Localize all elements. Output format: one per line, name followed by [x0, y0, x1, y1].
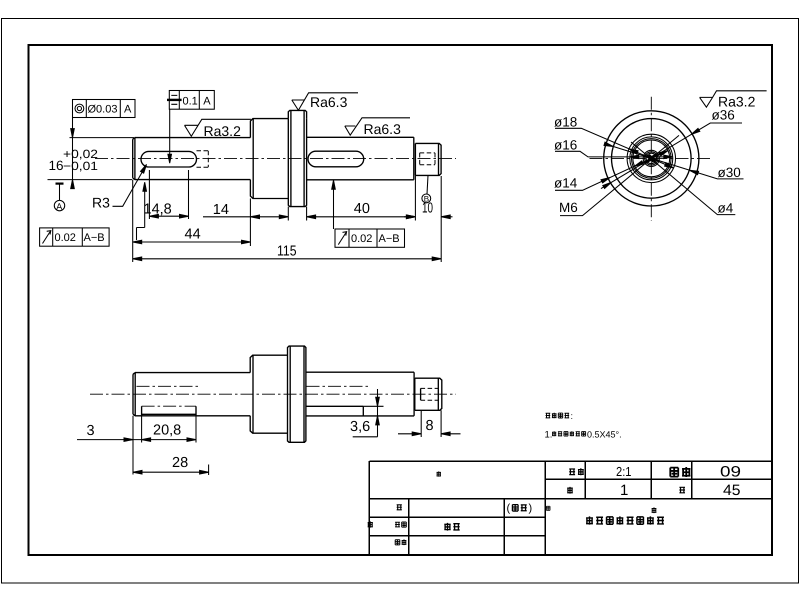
bottom view keyway of section 3: [307, 406, 364, 416]
svg-text:20,8: 20,8: [153, 423, 181, 439]
feature control frame circular runout 0.02 A-B (right) with leader: [332, 180, 405, 247]
shaft section 3 outline (d16): [307, 137, 414, 180]
circle d18: [627, 134, 675, 182]
svg-text:14,8: 14,8: [144, 201, 172, 217]
flange chamfer lines: [291, 110, 304, 206]
label date (riqi): [507, 503, 533, 515]
dimension 8 (bottom view thread length): [398, 410, 461, 437]
leader d30: [604, 142, 744, 180]
label checked (shenhe): [395, 540, 400, 545]
bottom view keyway of section 1: [141, 406, 196, 416]
dimension 40: [307, 175, 416, 220]
title block vertical after scale label: [584, 461, 586, 499]
svg-text:115: 115: [277, 243, 297, 259]
extension lines for d16: [48, 138, 135, 180]
leader d18: [554, 115, 674, 169]
title block row line 4: [369, 535, 545, 537]
datum A symbol: [54, 184, 64, 212]
label design second char (ji): [368, 521, 373, 527]
svg-text:0.5X45°.: 0.5X45°.: [587, 429, 622, 439]
svg-text:A: A: [124, 104, 132, 116]
title block horizontal line under scale row: [545, 478, 772, 480]
end section outline (d12): [415, 143, 441, 175]
svg-text:Ra3.2: Ra3.2: [718, 94, 756, 110]
bottom view section 3 outline: [306, 372, 414, 416]
title block vertical in signature area 1: [408, 499, 410, 556]
inner border frame: [29, 45, 773, 555]
label drawn by (huitu): [395, 522, 400, 527]
school name North China Institute of Aerospace Engineering: [586, 516, 664, 524]
svg-text:A: A: [56, 201, 62, 211]
svg-text:14: 14: [213, 202, 229, 218]
clipped glyph at unit cell: [546, 506, 550, 510]
feature control frame circular runout 0.02 A-B (left): [40, 228, 110, 246]
label design (she): [397, 505, 402, 510]
chamfer line left of section 2: [252, 119, 254, 199]
dimension 14,8: [144, 170, 189, 219]
svg-text:ø36: ø36: [712, 108, 735, 123]
svg-text:28: 28: [172, 455, 188, 471]
svg-text:16: 16: [49, 158, 64, 173]
stray glyph (jie): [652, 507, 657, 513]
bottom view section 1 outline: [133, 373, 250, 416]
svg-text:ø30: ø30: [718, 165, 741, 180]
svg-text:Ra6.3: Ra6.3: [310, 94, 348, 110]
svg-text:A: A: [203, 95, 211, 107]
surface finish Ra6.3 on section 3: [345, 118, 410, 137]
main view centerline (shaft axis): [95, 158, 456, 160]
feature control frame concentricity d0.03 A: [73, 100, 136, 118]
svg-text:10: 10: [422, 201, 433, 217]
svg-text:3,6: 3,6: [350, 419, 370, 435]
title block vertical after scale value: [650, 461, 652, 499]
bottom view section 2 outline: [250, 355, 287, 433]
dimension 3,6 (bottom view keyway depth): [350, 389, 384, 437]
svg-text:ø14: ø14: [554, 176, 578, 191]
dimension 28 (bottom view): [133, 455, 209, 475]
small vertical tick dimension near keyway left: [137, 186, 145, 240]
title block vertical after drawing-number label: [691, 461, 693, 499]
title block vertical in signature area 2: [503, 499, 505, 556]
svg-text:45: 45: [723, 482, 741, 499]
title block row line 3: [369, 516, 545, 518]
shaft section 1 outline (d16, left): [133, 138, 251, 180]
leader + dimension line of diameter 16 tolerance: [72, 118, 74, 189]
keyway slot 2 (rounded slot): [308, 151, 364, 167]
chamfer circle: [632, 139, 672, 179]
dimension 20,8 (bottom view): [142, 416, 196, 443]
keyway slot 1 (rounded slot): [141, 151, 197, 167]
leader d36: [601, 108, 742, 189]
title block outline: [369, 461, 772, 555]
svg-text:40: 40: [354, 201, 370, 217]
svg-text:Ø0.03: Ø0.03: [88, 104, 118, 116]
circle d4: [646, 153, 656, 163]
title block horizontal line under qty row: [369, 498, 772, 500]
bottom view thread hidden lines: [421, 388, 439, 400]
svg-text:0.02: 0.02: [55, 232, 76, 244]
label scale (bili): [569, 469, 575, 475]
signature: [444, 523, 450, 531]
svg-text:Ra6.3: Ra6.3: [364, 121, 402, 137]
surface finish Ra6.3 on flange: [292, 93, 358, 111]
label drawing number (tuhao): [670, 468, 678, 477]
circle d14: [633, 140, 670, 177]
dimension 10 with datum B circle: [404, 175, 453, 262]
surface finish Ra3.2 on section 1: [185, 119, 251, 139]
svg-text:8: 8: [426, 418, 434, 434]
flange side faces: [288, 119, 306, 199]
bottom view centerline (shaft axis): [90, 393, 456, 395]
chamfer line left end of section 1: [134, 138, 136, 180]
svg-text:Ra3.2: Ra3.2: [204, 123, 242, 139]
leader d4: [631, 142, 735, 216]
leader d16: [554, 138, 673, 159]
svg-text:M6: M6: [559, 200, 578, 215]
svg-text:ø18: ø18: [554, 115, 577, 130]
circle M6 minor: [645, 152, 658, 165]
svg-text:): ): [529, 503, 533, 515]
end view centerlines: [650, 97, 652, 221]
svg-text:0.02: 0.02: [351, 233, 372, 245]
label quantity: [567, 487, 573, 494]
svg-text:−0,01: −0,01: [63, 159, 98, 173]
svg-text::: :: [571, 411, 574, 421]
dimension 3 (bottom view): [77, 416, 151, 475]
svg-text:2:1: 2:1: [616, 464, 632, 479]
chamfer line left end (bottom view): [134, 373, 136, 416]
dimension 14: [203, 199, 288, 247]
leader M6: [559, 135, 679, 215]
label material: [679, 487, 685, 492]
svg-text:ø16: ø16: [554, 138, 577, 153]
dimension 115: [133, 243, 442, 260]
circle d30: [612, 119, 692, 199]
surface finish Ra3.2 (end view): [700, 91, 767, 110]
svg-text:3: 3: [87, 423, 95, 439]
technical requirements heading: [546, 413, 551, 418]
leader d14: [554, 151, 668, 191]
circle M6 major: [643, 150, 659, 166]
bottom view end section outline: [415, 378, 442, 410]
title block vertical main divider: [544, 461, 546, 555]
end section chamfer line: [438, 143, 440, 175]
hidden M6 hole in end section (dashed): [420, 153, 435, 165]
dimension 44: [133, 180, 251, 262]
shaft section 2 outline (d30): [250, 119, 288, 199]
circle d36: [604, 111, 699, 206]
flange outline (d36): [288, 110, 306, 206]
svg-text:44: 44: [185, 227, 201, 243]
feature control frame symmetry 0.1 A: [167, 91, 214, 110]
svg-text:1.: 1.: [545, 429, 553, 440]
part name glyph (axis): [437, 471, 441, 476]
svg-text:(: (: [507, 503, 511, 515]
svg-text:R3: R3: [92, 195, 110, 211]
R3 leader and text: [92, 165, 147, 211]
bottom view flange outline: [288, 346, 306, 442]
svg-text:1: 1: [620, 482, 628, 499]
leader from 0.1 A frame to keyway: [169, 109, 171, 161]
keyway slot 1 hidden continuation (dashed): [197, 151, 209, 168]
circle d16: [630, 137, 673, 180]
svg-text:09: 09: [720, 464, 741, 481]
svg-text:ø4: ø4: [718, 201, 734, 216]
svg-text:0.1: 0.1: [183, 95, 198, 107]
svg-text:A−B: A−B: [379, 233, 400, 245]
svg-text:A−B: A−B: [84, 232, 105, 244]
